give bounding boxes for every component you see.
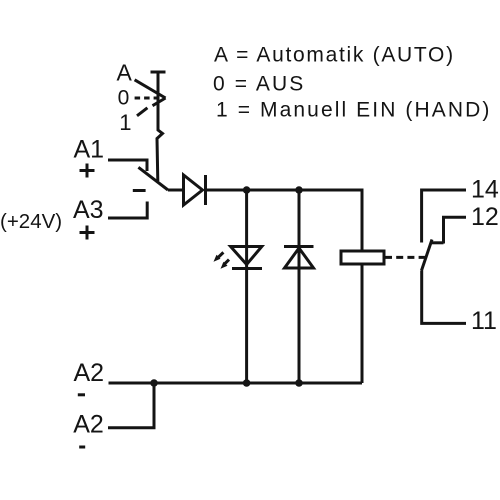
- terminal A3 lead wire: [108, 202, 147, 219]
- changeover contact blade between A1 and A3: [138, 167, 168, 190]
- LED D2 triangle: [231, 247, 262, 265]
- polarity minus sign at A2 first: [78, 393, 85, 396]
- relay coil K1 rectangle: [341, 251, 384, 264]
- svg-text:11: 11: [471, 307, 497, 335]
- contact 12 lead wire: [444, 217, 467, 243]
- freewheeling diode D3 triangle: [285, 248, 314, 268]
- junction node top rail / LED branch: [243, 186, 251, 194]
- svg-text:0: 0: [118, 87, 130, 110]
- contact 11 lead wire: [422, 271, 466, 324]
- terminal A3 fixed contact bar: [133, 189, 146, 192]
- svg-text:1 = Manuell EIN (HAND): 1 = Manuell EIN (HAND): [216, 99, 492, 122]
- svg-text:A2: A2: [73, 411, 104, 439]
- contact 12 fixed contact bar: [431, 241, 444, 244]
- svg-text:A1: A1: [74, 136, 105, 164]
- LED D2 emission arrow 1: [214, 252, 224, 261]
- junction node bottom rail / A2: [150, 379, 158, 387]
- svg-text:1: 1: [119, 110, 131, 135]
- terminal A2 second lead wire: [108, 383, 154, 428]
- junction node top rail / D3 branch: [295, 186, 303, 194]
- freewheeling diode D3 cathode bar: [284, 245, 314, 248]
- polarity plus sign at A1: [80, 164, 95, 178]
- polarity plus sign at A3: [80, 226, 95, 240]
- wire top rail from D1 to relay coil: [206, 190, 363, 251]
- junction node bottom rail / D3 branch: [295, 379, 303, 387]
- mechanical link dashed line from coil to contact: [385, 256, 426, 259]
- selector switch S1 tick (position 1): [137, 108, 147, 116]
- wire relay coil bottom to rail: [361, 264, 364, 383]
- wire bottom rail A2: [109, 382, 363, 385]
- selector switch S1 stem wire with manual-actuation kink: [157, 72, 163, 181]
- terminal A1 lead wire: [108, 160, 147, 171]
- svg-text:14: 14: [471, 176, 499, 204]
- diode D1 cathode bar: [204, 175, 207, 205]
- selector switch S1 dashed pointer (position 0): [135, 97, 158, 100]
- polarity minus sign at A2 second: [79, 446, 85, 449]
- svg-text:(+24V): (+24V): [0, 210, 62, 233]
- LED D2 emission arrow 2: [221, 260, 230, 269]
- LED D2 cathode bar: [232, 267, 262, 270]
- selector switch S1 top bar: [151, 71, 166, 74]
- selector switch S1 lever (position A) with arrowhead: [135, 80, 166, 98]
- diode D1 triangle: [184, 175, 203, 205]
- contact lever of relay changeover: [422, 240, 433, 271]
- svg-text:A3: A3: [73, 196, 104, 224]
- svg-text:A = Automatik (AUTO): A = Automatik (AUTO): [214, 44, 455, 67]
- svg-text:A: A: [117, 60, 133, 86]
- svg-text:0 = AUS: 0 = AUS: [213, 72, 305, 95]
- junction node bottom rail / LED branch: [243, 379, 251, 387]
- contact 14 lead wire: [422, 190, 466, 243]
- wire LED branch: [245, 190, 248, 383]
- svg-text:A2: A2: [74, 359, 105, 387]
- wire freewheeling diode branch: [298, 190, 301, 383]
- svg-text:12: 12: [471, 203, 499, 231]
- wire from blade to diode D1 anode: [168, 189, 184, 192]
